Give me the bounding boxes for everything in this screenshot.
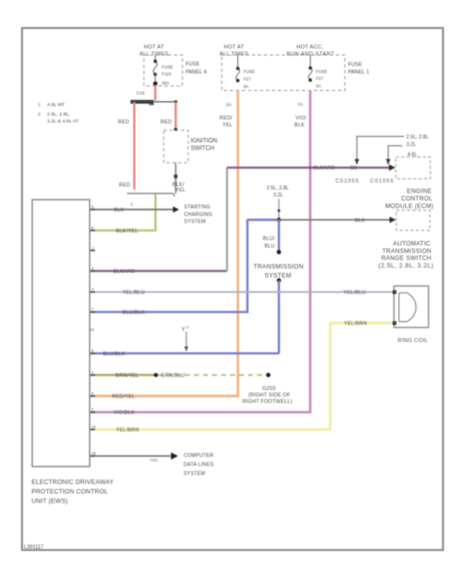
svg-text:RED: RED	[118, 120, 129, 126]
ground G203 text	[242, 386, 292, 405]
svg-text:2: 2	[92, 408, 94, 412]
fuse F110 exit dot	[153, 81, 157, 85]
fuse F17 symbol	[236, 68, 240, 80]
svg-text:BLU/: BLU/	[263, 236, 275, 242]
svg-text:3.2L: 3.2L	[273, 193, 283, 199]
note legend	[38, 102, 79, 125]
svg-text:L391117: L391117	[24, 545, 44, 551]
fuse panel 1 header A	[219, 44, 248, 57]
svg-text:C15: C15	[137, 90, 146, 95]
wire red left leg of splice down	[133, 102, 135, 190]
svg-text:2.5L, 2.8L,: 2.5L, 2.8L,	[47, 111, 70, 117]
connector bar under switch	[127, 193, 174, 196]
leader to arrow 1	[357, 136, 404, 159]
fuse F110 lead-in	[154, 55, 156, 60]
wire blue from transmission system to EWS pin	[91, 280, 279, 353]
svg-text:IGNITION: IGNITION	[191, 139, 218, 145]
ground dot G203	[266, 373, 270, 377]
svg-text:CHARGING: CHARGING	[184, 212, 213, 218]
ring coil pin bottom	[393, 321, 397, 325]
ignition switch name	[191, 139, 218, 152]
ECM dashed box	[396, 157, 431, 179]
svg-text:SYSTEM: SYSTEM	[184, 471, 206, 477]
fuse F17 lead-in	[237, 55, 239, 67]
svg-text:BLK/VIO: BLK/VIO	[314, 166, 335, 172]
wire blue down from junction	[278, 220, 280, 251]
svg-text:YEL: YEL	[176, 188, 186, 194]
ignition switch dashed box	[164, 130, 189, 162]
svg-text:YEL/BRN: YEL/BRN	[116, 427, 139, 433]
svg-text:2: 2	[187, 325, 190, 330]
wire brown BRN/YEL from EWS pin	[91, 374, 155, 376]
label VIO/BLK below fuse panel	[295, 116, 307, 129]
svg-text:VIO/BLK: VIO/BLK	[114, 410, 136, 416]
svg-text:RANGE SWITCH: RANGE SWITCH	[381, 255, 431, 262]
svg-text:HOT AT: HOT AT	[224, 44, 245, 50]
svg-text:9: 9	[92, 392, 94, 396]
svg-text:7A: 7A	[298, 102, 303, 107]
tag leader dot	[278, 209, 281, 212]
wire gray riser	[226, 168, 228, 271]
svg-text:PANEL 4: PANEL 4	[186, 70, 207, 76]
wire purple BLK/VIO from EWS pin to riser	[91, 270, 227, 272]
svg-text:TRANSMISSION: TRANSMISSION	[382, 248, 431, 255]
svg-text:RED: RED	[119, 183, 130, 189]
svg-text:YEL/BRN: YEL/BRN	[344, 321, 367, 327]
starting charging system text	[184, 204, 213, 225]
ECM name	[385, 188, 433, 210]
svg-text:BLK: BLK	[355, 218, 366, 224]
fuse panel 1 dashed box	[222, 55, 345, 91]
fuse panel 4 name	[186, 61, 207, 75]
transmission system bottom dot	[277, 278, 281, 282]
ignition switch bottom stub	[175, 163, 177, 194]
coil symbol	[399, 293, 416, 322]
fuse F110 symbol	[153, 61, 157, 74]
svg-text:YEL: YEL	[223, 123, 233, 129]
wire red fuse F110 to splice bar	[154, 85, 156, 101]
svg-text:1: 1	[131, 202, 134, 207]
svg-text:3: 3	[92, 288, 94, 292]
fuse F110 exit lead	[154, 74, 156, 84]
svg-text:6: 6	[92, 349, 94, 353]
svg-text:5: 5	[92, 205, 94, 209]
svg-text:YEL/BLU: YEL/BLU	[123, 290, 145, 296]
engine tag 2.5L 2.8L 3.2L for ECM	[406, 134, 428, 158]
svg-text:BLK/YEL: BLK/YEL	[116, 228, 138, 234]
svg-text:2.5L, 2.8L: 2.5L, 2.8L	[267, 185, 289, 191]
svg-text:ENGINE: ENGINE	[407, 188, 432, 195]
svg-text:4.6L MT: 4.6L MT	[47, 102, 65, 108]
svg-text:TXD: TXD	[150, 458, 158, 463]
wire black to starting charging system	[91, 209, 174, 211]
svg-text:F27: F27	[316, 76, 324, 81]
tag leader line	[278, 199, 280, 218]
junction dot at violet crossing	[309, 166, 312, 169]
svg-text:BLK: BLK	[114, 208, 125, 214]
svg-text:FUSE: FUSE	[244, 69, 255, 74]
fuse F17 value label	[244, 69, 255, 89]
svg-text:BLU: BLU	[265, 243, 276, 249]
svg-text:C6: C6	[350, 166, 357, 172]
fuse F27 lead-in	[309, 55, 311, 67]
wire red right leg of splice to ignition switch	[175, 102, 177, 128]
arrow into ECM	[389, 164, 395, 170]
label BLU/BLU beside wire	[263, 236, 275, 249]
svg-text:C01056: C01056	[370, 178, 394, 184]
fuse F27 value label	[316, 69, 327, 89]
svg-text:SYSTEM: SYSTEM	[184, 219, 206, 225]
svg-text:UNIT (EWS): UNIT (EWS)	[32, 498, 68, 505]
svg-text:STARTING: STARTING	[184, 204, 210, 210]
fuse panel 4 header	[139, 44, 168, 57]
svg-text:ELECTRONIC DRIVEAWAY: ELECTRONIC DRIVEAWAY	[32, 479, 115, 486]
svg-text:FUSE: FUSE	[316, 69, 327, 74]
transmission system label	[253, 263, 303, 279]
wire pale YEL/BLU from EWS pin to ring coil	[91, 291, 394, 293]
ignition switch contact dot	[174, 175, 178, 179]
arrow 1 down to wire	[355, 159, 360, 165]
svg-text:BLU/BLK: BLU/BLK	[103, 351, 126, 357]
EWS name	[32, 479, 115, 505]
svg-text:ALL TIMES: ALL TIMES	[139, 51, 168, 57]
EWS pin stubs and numbers	[90, 210, 95, 457]
wire purple horizontal to ECM	[227, 167, 391, 169]
svg-text:3.2L & 4.6L AT: 3.2L & 4.6L AT	[47, 119, 79, 125]
svg-text:1: 1	[92, 371, 94, 375]
svg-text:BLK: BLK	[295, 123, 306, 129]
wire black computer data lines	[91, 455, 173, 457]
svg-text:2.5L, 2.8L: 2.5L, 2.8L	[406, 134, 428, 140]
svg-text:30A: 30A	[162, 80, 170, 85]
antenna marker line	[185, 332, 187, 348]
svg-text:COMPUTER: COMPUTER	[184, 453, 214, 459]
svg-text:BRN/YEL: BRN/YEL	[116, 373, 139, 379]
svg-text:MODULE (ECM): MODULE (ECM)	[385, 203, 433, 210]
range switch name	[378, 241, 433, 270]
svg-text:FUSE: FUSE	[162, 64, 173, 69]
wire yellow YEL from EWS pin to ring coil	[91, 323, 394, 430]
arrow to starting charging system	[173, 206, 179, 212]
wire dashed GRN/BLU	[158, 374, 267, 376]
label RED/YEL below fuse panel	[220, 116, 233, 129]
leader to arrow 2	[388, 146, 402, 160]
range switch dashed box	[396, 210, 430, 230]
wire blue BLU/BLK into EWS pin	[91, 311, 247, 312]
svg-text:C01055: C01055	[336, 178, 360, 184]
ring coil box	[394, 286, 429, 328]
svg-text:5A: 5A	[244, 84, 249, 89]
svg-text:3.2L: 3.2L	[406, 142, 416, 148]
svg-text:RED: RED	[161, 120, 172, 126]
svg-text:YEL/BLU: YEL/BLU	[344, 290, 366, 296]
svg-text:1: 1	[38, 102, 41, 107]
svg-text:HOT AT: HOT AT	[144, 44, 165, 50]
wire violet VIO/BLK vertical from fuse F27 to EWS pin	[91, 91, 310, 413]
svg-text:RED/YEL: RED/YEL	[112, 394, 135, 400]
svg-text:Y: Y	[182, 327, 186, 333]
svg-text:18: 18	[92, 452, 96, 456]
fuse panel 1 name	[348, 62, 369, 76]
svg-text:BLK/VIO: BLK/VIO	[114, 269, 135, 275]
svg-text:F17: F17	[244, 76, 252, 81]
svg-text:DATA LINES: DATA LINES	[184, 462, 215, 468]
ring coil pin top	[393, 290, 397, 294]
transmission system top dot	[277, 250, 281, 254]
svg-text:PANEL 1: PANEL 1	[348, 69, 369, 75]
svg-text:(RIGHT SIDE OF: (RIGHT SIDE OF	[248, 392, 290, 398]
svg-text:AUTOMATIC: AUTOMATIC	[393, 241, 431, 248]
wire blue branch left from junction	[247, 220, 277, 312]
svg-text:BLU/BLK: BLU/BLK	[123, 310, 146, 316]
fuse F110 value label	[162, 64, 173, 85]
arrow 2 down to wire	[386, 159, 391, 165]
svg-text:2A: 2A	[226, 102, 231, 107]
splice dot on brown wire	[154, 373, 158, 377]
svg-text:F110: F110	[162, 72, 172, 77]
svg-text:SWITCH: SWITCH	[191, 146, 215, 152]
svg-text:ALL TIMES: ALL TIMES	[219, 51, 248, 57]
svg-text:FUSE: FUSE	[186, 61, 201, 67]
arrow into range switch	[390, 217, 396, 223]
svg-text:HOT ACC,: HOT ACC,	[297, 44, 324, 50]
EWS control unit box	[32, 200, 89, 467]
splice bar	[131, 101, 177, 103]
pin stub 3 no wire	[90, 250, 95, 252]
svg-text:8: 8	[92, 226, 94, 230]
svg-text:CONTROL: CONTROL	[401, 195, 433, 202]
svg-text:10: 10	[92, 425, 96, 429]
wire olive BLK/YEL drop from bar	[91, 194, 156, 230]
svg-text:PROTECTION CONTROL: PROTECTION CONTROL	[32, 489, 109, 496]
junction node dot	[277, 218, 281, 222]
wire black from junction to range switch	[279, 219, 391, 221]
arrow to computer data lines	[171, 452, 178, 459]
svg-text:5A: 5A	[316, 84, 321, 89]
svg-text:19: 19	[90, 328, 94, 332]
svg-text:G203: G203	[262, 386, 275, 392]
svg-text:RIGHT FOOTWELL): RIGHT FOOTWELL)	[242, 399, 292, 405]
antenna marker arrowhead	[184, 347, 188, 352]
ignition switch top pin	[174, 128, 177, 131]
wire orange RED/YEL vertical from fuse F17 to EWS pin	[91, 91, 238, 396]
label BLK/YEL at switch	[173, 182, 186, 194]
svg-text:4.6L: 4.6L	[407, 152, 417, 158]
svg-text:RING COIL: RING COIL	[398, 338, 428, 344]
svg-text:(2.5L, 2.8L, 3.2L): (2.5L, 2.8L, 3.2L)	[378, 263, 433, 270]
svg-text:4: 4	[92, 267, 94, 271]
svg-text:2: 2	[38, 111, 41, 116]
svg-text:VIO/: VIO/	[296, 116, 307, 122]
svg-text:FUSE: FUSE	[348, 62, 363, 68]
svg-text:7: 7	[92, 308, 94, 312]
fuse F27 symbol	[309, 68, 313, 80]
svg-text:RED/: RED/	[220, 116, 233, 122]
svg-text:2: 2	[92, 247, 94, 251]
engine tag 2.5L 2.8L 3.2L above junction	[267, 185, 289, 198]
fuse panel 4 dashed box	[144, 55, 183, 86]
computer data lines text	[184, 453, 215, 477]
fuse panel 1 header B	[286, 44, 334, 57]
svg-text:GRN/BLU: GRN/BLU	[161, 373, 185, 379]
svg-text:TRANSMISSION: TRANSMISSION	[253, 263, 303, 270]
